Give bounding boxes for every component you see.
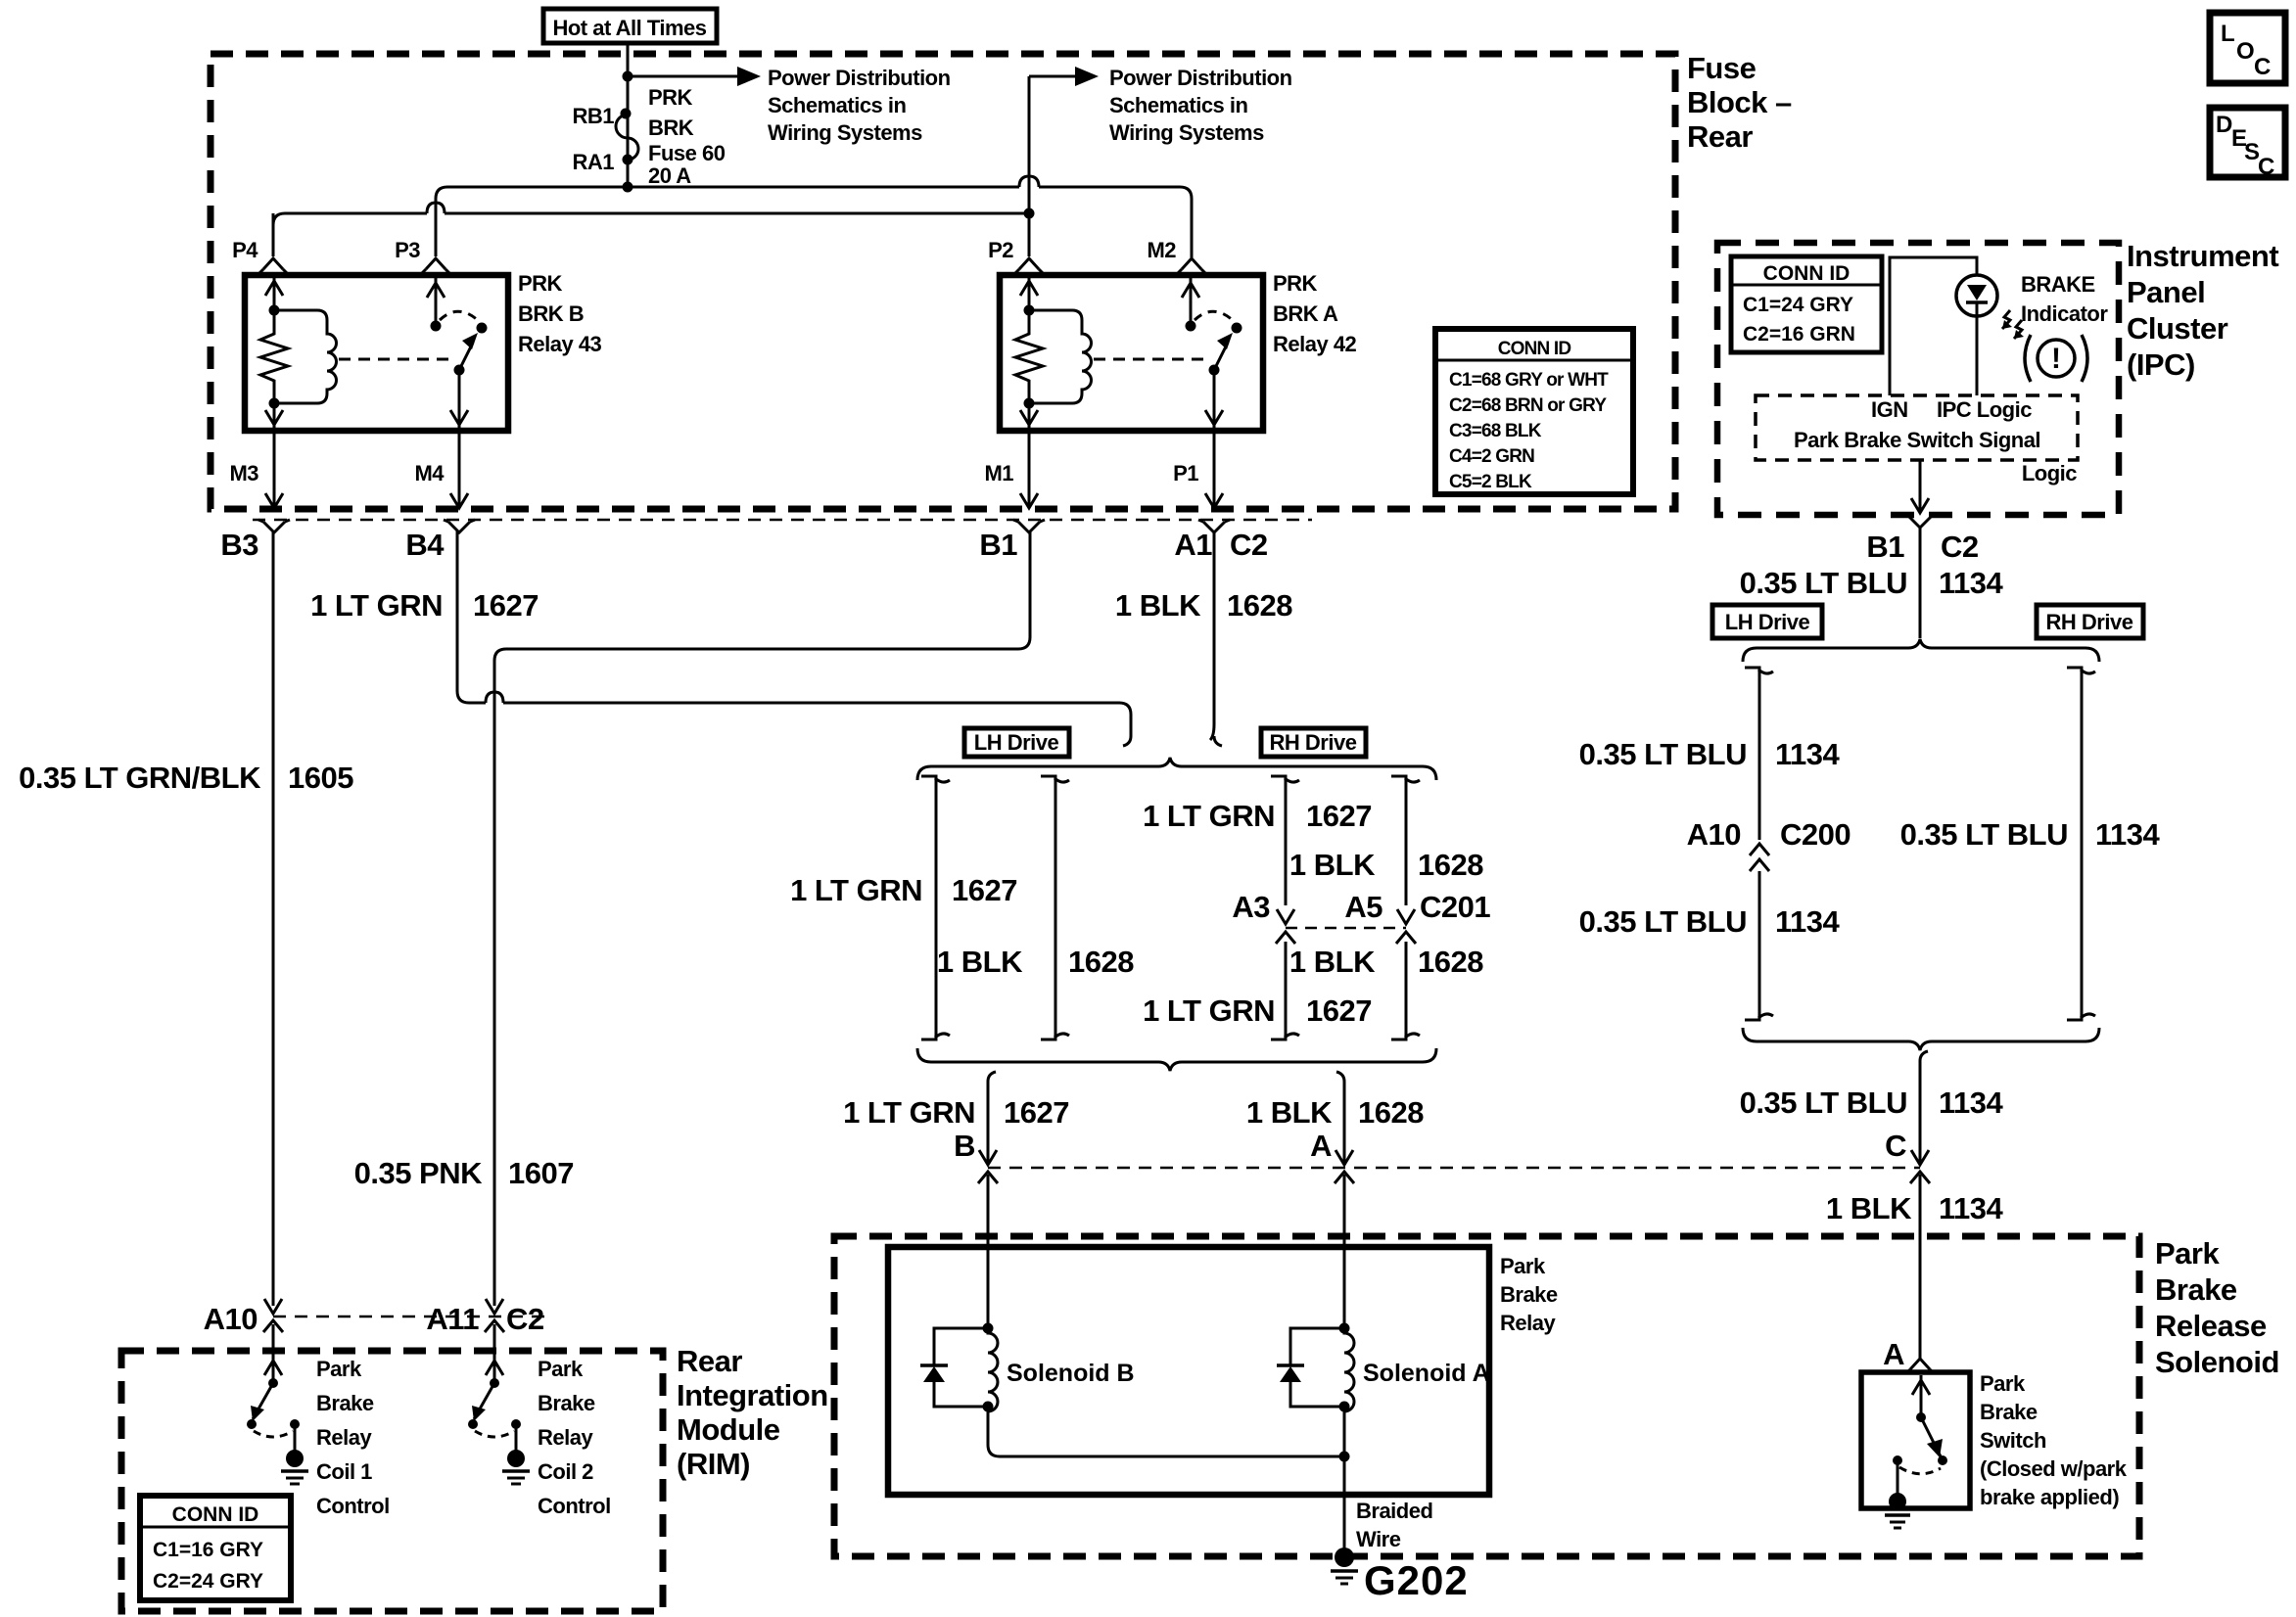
bundle line RH outer <box>1391 776 1406 905</box>
svg-text:C3=68 BLK: C3=68 BLK <box>1449 421 1542 441</box>
svg-text:1628: 1628 <box>1227 588 1292 623</box>
switch blade PRK BRK A Relay 42 <box>1214 343 1228 370</box>
svg-text:P2: P2 <box>988 238 1013 262</box>
node junction at fuse top <box>623 71 633 82</box>
svg-text:B1: B1 <box>1866 530 1904 564</box>
switch travel dashed arc <box>254 1431 293 1437</box>
wire harness to B connector (1 LT GRN 1627) <box>987 1082 990 1165</box>
connector A at park brake switch <box>1910 1359 1930 1369</box>
svg-text:1628: 1628 <box>1068 945 1134 979</box>
connector A <box>1335 1150 1353 1165</box>
wire M1 drop <box>1028 432 1031 508</box>
svg-text:P4: P4 <box>232 238 258 262</box>
svg-text:Brake: Brake <box>316 1391 374 1415</box>
svg-text:P1: P1 <box>1173 461 1198 485</box>
node P2 junction on second bus <box>1024 208 1035 219</box>
thin connector dashed line below fuse block <box>253 519 1312 522</box>
svg-text:Block –: Block – <box>1687 85 1792 119</box>
svg-text:(Closed w/park: (Closed w/park <box>1980 1456 2128 1481</box>
right harness bottom brace <box>1743 1028 2099 1050</box>
svg-text:C2=16 GRN: C2=16 GRN <box>1743 323 1855 346</box>
IPC logic dashed box <box>1756 395 2078 460</box>
wire C connector to park brake switch <box>1919 1175 1922 1359</box>
svg-text:C2=24 GRY: C2=24 GRY <box>153 1570 263 1593</box>
node coil bottom junction <box>269 398 280 409</box>
harness top brace <box>917 758 1436 780</box>
PRK BRK A Relay 42 switch output arrow <box>1213 370 1216 428</box>
node Solenoid B top junction <box>983 1323 994 1334</box>
svg-text:BRK B: BRK B <box>518 301 584 326</box>
svg-text:PRK: PRK <box>518 271 563 296</box>
hook into harness brace (green) <box>1123 736 1131 746</box>
connector B3 <box>265 493 283 508</box>
ground symbol <box>502 1469 530 1473</box>
wire M4 drop <box>458 431 461 508</box>
svg-text:brake applied): brake applied) <box>1980 1485 2119 1509</box>
instrument panel cluster dashed box <box>1717 243 2119 515</box>
svg-text:Release: Release <box>2155 1309 2267 1343</box>
node Solenoid A top junction <box>1339 1323 1350 1334</box>
wire into coil control switch Coil 2 <box>493 1324 496 1380</box>
svg-text:!: ! <box>2051 343 2061 375</box>
svg-text:A: A <box>1310 1129 1332 1163</box>
ground symbol <box>281 1469 308 1473</box>
svg-text:Park: Park <box>1500 1254 1546 1278</box>
svg-text:PRK: PRK <box>1273 271 1318 296</box>
brake indicator LED <box>1956 275 1997 316</box>
connector A10 <box>264 1299 282 1314</box>
ground node <box>286 1450 304 1467</box>
svg-text:D: D <box>2216 112 2232 138</box>
svg-text:1134: 1134 <box>1939 1086 2004 1120</box>
svg-text:Indicator: Indicator <box>2021 301 2108 326</box>
svg-text:1 LT GRN: 1 LT GRN <box>790 873 922 907</box>
IPC CONN ID table <box>1731 256 1882 352</box>
node switch pivot <box>1209 365 1220 376</box>
wire to ground <box>294 1424 297 1455</box>
RH Drive box (center) <box>1261 728 1366 757</box>
wire solenoid A to ground (braided wire) <box>1343 1407 1346 1557</box>
svg-text:1628: 1628 <box>1418 848 1483 882</box>
PRK BRK B Relay 43 switch output arrow <box>458 370 461 428</box>
svg-text:Hot at All Times: Hot at All Times <box>552 16 706 40</box>
svg-text:Fuse 60: Fuse 60 <box>648 141 726 165</box>
wire P4 drop <box>272 213 275 256</box>
park brake switch input arrow <box>1920 1375 1923 1417</box>
bundle line RH inner <box>1271 776 1286 905</box>
svg-text:Coil 1: Coil 1 <box>316 1459 372 1484</box>
PRK BRK B Relay 43 switch input wire <box>435 278 438 326</box>
svg-text:1628: 1628 <box>1418 945 1483 979</box>
svg-text:C2: C2 <box>506 1302 544 1336</box>
wire arrow to power distribution (left) <box>628 75 737 78</box>
coil Solenoid B <box>988 1328 998 1411</box>
hop of pink wire over green wire <box>486 692 503 703</box>
wire from Hot at All Times to fuse <box>627 43 630 187</box>
node switch pivot <box>490 1378 499 1388</box>
svg-text:Fuse: Fuse <box>1687 51 1757 85</box>
ground G202 <box>1335 1548 1354 1567</box>
svg-text:A5: A5 <box>1344 890 1382 924</box>
connector C201 dashed line <box>1286 927 1406 930</box>
svg-text:1 BLK: 1 BLK <box>1115 588 1201 623</box>
wire B4 down and right to LH/RH drive bundle (1 LT GRN 1627) <box>457 531 1131 736</box>
svg-text:Control: Control <box>538 1494 611 1518</box>
middle CONN ID table <box>1435 329 1633 494</box>
svg-text:CONN ID: CONN ID <box>1498 339 1571 359</box>
solenoid assembly box <box>888 1247 1489 1495</box>
svg-text:B4: B4 <box>405 528 445 562</box>
node switch ground contact <box>1893 1455 1902 1465</box>
svg-text:1627: 1627 <box>952 873 1017 907</box>
LH Drive box (right) <box>1712 605 1822 638</box>
svg-text:G202: G202 <box>1364 1557 1469 1603</box>
connector A5 at C201 <box>1397 909 1415 924</box>
IPC internal feed wire <box>1890 257 1977 395</box>
node switch NO contact <box>477 323 488 334</box>
rear integration module dashed box <box>121 1351 663 1611</box>
bundle line LH inner <box>1041 776 1055 1039</box>
svg-text:RB1: RB1 <box>572 104 614 128</box>
svg-text:0.35 LT BLU: 0.35 LT BLU <box>1740 1086 1907 1120</box>
right bundle line LH <box>1745 668 1759 840</box>
svg-text:Brake: Brake <box>538 1391 595 1415</box>
svg-text:Integration: Integration <box>677 1378 828 1412</box>
svg-text:B3: B3 <box>220 528 258 562</box>
svg-text:1627: 1627 <box>1306 799 1372 833</box>
switch movement dashed arc <box>440 311 481 323</box>
svg-text:Brake: Brake <box>1500 1282 1558 1307</box>
svg-text:Schematics in: Schematics in <box>768 93 907 117</box>
svg-text:Logic: Logic <box>2022 461 2077 485</box>
node switch blade end <box>1938 1455 1947 1465</box>
connector B4 <box>450 493 468 508</box>
svg-text:1134: 1134 <box>1775 904 1841 939</box>
svg-text:Cluster: Cluster <box>2127 311 2228 346</box>
node switch fixed contact <box>1186 321 1196 332</box>
switch blade <box>253 1383 273 1419</box>
PRK BRK A Relay 42 coil output arrow <box>1028 403 1031 428</box>
svg-text:Brake: Brake <box>2155 1272 2237 1307</box>
svg-text:Park Brake Switch Signal: Park Brake Switch Signal <box>1794 428 2040 452</box>
resistor PRK BRK B Relay 43 <box>260 310 288 403</box>
switch movement dashed arc <box>1195 311 1236 323</box>
svg-text:M2: M2 <box>1147 238 1176 262</box>
svg-text:1134: 1134 <box>2095 817 2161 852</box>
PRK BRK B Relay 43 coil output arrow <box>273 403 276 428</box>
svg-text:Braided: Braided <box>1356 1499 1432 1523</box>
node switch pivot <box>268 1378 278 1388</box>
diode Solenoid A <box>1290 1328 1344 1407</box>
svg-text:1 LT GRN: 1 LT GRN <box>310 588 443 623</box>
svg-text:A3: A3 <box>1232 890 1270 924</box>
node blade end contact <box>468 1419 478 1429</box>
wire into coil control switch Coil 1 <box>272 1324 275 1380</box>
hop over P2 wire <box>1019 176 1039 187</box>
connector B1 <box>1020 493 1038 508</box>
svg-text:IPC Logic: IPC Logic <box>1937 397 2032 422</box>
svg-text:1 LT GRN: 1 LT GRN <box>1143 993 1275 1028</box>
svg-text:1605: 1605 <box>288 761 353 795</box>
coil PRK BRK A Relay 42 <box>1029 310 1092 403</box>
svg-text:LH Drive: LH Drive <box>974 730 1059 755</box>
svg-text:Panel: Panel <box>2127 275 2205 309</box>
wire contact to ground <box>1897 1460 1899 1501</box>
svg-text:1134: 1134 <box>1939 1191 2004 1225</box>
svg-text:BRAKE: BRAKE <box>2021 272 2095 297</box>
svg-text:1 BLK: 1 BLK <box>1289 945 1376 979</box>
LED emission arrows <box>2002 310 2010 329</box>
RIM CONN ID table <box>140 1496 291 1600</box>
svg-text:Relay: Relay <box>316 1425 372 1450</box>
svg-text:Solenoid: Solenoid <box>2155 1345 2279 1379</box>
connector B1/C2 at IPC <box>1909 517 1931 528</box>
LH Drive box (center) <box>964 728 1069 757</box>
brake warning symbol ((!)) <box>2038 340 2075 377</box>
svg-text:(RIM): (RIM) <box>677 1447 750 1481</box>
park brake relay dashed boundary <box>834 1236 2139 1556</box>
PRK BRK A Relay 42 coil input arrow <box>1028 278 1031 310</box>
svg-text:Solenoid B: Solenoid B <box>1007 1360 1135 1387</box>
PRK BRK B Relay 43 coil input arrow <box>273 278 276 310</box>
top bus wire from P3 to M2 <box>436 187 1192 257</box>
node fuse output junction <box>623 182 633 193</box>
svg-text:C4=2 GRN: C4=2 GRN <box>1449 446 1534 467</box>
svg-text:C2=68 BRN or GRY: C2=68 BRN or GRY <box>1449 395 1607 416</box>
svg-text:Wiring Systems: Wiring Systems <box>1109 120 1264 145</box>
svg-text:Park: Park <box>2155 1236 2220 1270</box>
node Solenoid A bottom junction <box>1339 1402 1350 1412</box>
svg-text:0.35 LT BLU: 0.35 LT BLU <box>1579 904 1747 939</box>
svg-text:1628: 1628 <box>1358 1095 1424 1130</box>
svg-text:Park: Park <box>538 1357 584 1381</box>
svg-text:LH Drive: LH Drive <box>1725 610 1810 634</box>
svg-text:C: C <box>1885 1129 1906 1163</box>
svg-text:C: C <box>2258 154 2274 180</box>
svg-text:1 BLK: 1 BLK <box>1289 848 1376 882</box>
svg-text:1 LT GRN: 1 LT GRN <box>843 1095 975 1130</box>
wire P2 riser to power distribution arrow (right) <box>1028 76 1031 213</box>
relay box PRK BRK A Relay 42 <box>1000 275 1263 431</box>
svg-text:C2: C2 <box>1230 528 1268 562</box>
svg-text:A: A <box>1883 1337 1904 1371</box>
svg-text:A10: A10 <box>1687 817 1741 852</box>
ground symbol at switch <box>1885 1513 1910 1517</box>
resistor PRK BRK A Relay 42 <box>1015 310 1043 403</box>
svg-text:0.35 LT BLU: 0.35 LT BLU <box>1900 817 2068 852</box>
relay mechanical link dashed line <box>1094 358 1206 361</box>
svg-text:C2: C2 <box>1941 530 1979 564</box>
svg-text:A1: A1 <box>1174 528 1212 562</box>
fuse block - rear dashed boundary <box>211 54 1675 509</box>
svg-text:Brake: Brake <box>1980 1400 2038 1424</box>
fuse RB1 terminal <box>621 109 632 119</box>
connector P2 <box>1019 258 1039 269</box>
svg-text:20 A: 20 A <box>648 163 691 188</box>
wire solenoid B to common <box>988 1407 1344 1456</box>
second bus wire from P4 to P2 junction <box>273 213 1029 225</box>
switch travel dashed arc <box>1899 1467 1941 1474</box>
connector P4 <box>263 258 283 269</box>
svg-text:Coil 2: Coil 2 <box>538 1459 593 1484</box>
svg-text:Relay: Relay <box>1500 1311 1556 1335</box>
svg-text:PRK: PRK <box>648 85 693 110</box>
DESC box <box>2210 108 2285 177</box>
svg-text:1627: 1627 <box>1004 1095 1069 1130</box>
svg-text:1 BLK: 1 BLK <box>1826 1191 1912 1225</box>
relay box PRK BRK B Relay 43 <box>245 275 508 431</box>
svg-text:Park: Park <box>1980 1371 2026 1396</box>
bundle line LH outer <box>921 776 936 1039</box>
wire P3 drop <box>435 199 438 256</box>
hook solenoid B feed <box>988 1072 996 1082</box>
svg-text:C1=24 GRY: C1=24 GRY <box>1743 294 1853 316</box>
diode Solenoid B <box>934 1328 988 1407</box>
wire solenoid A feed <box>1343 1175 1346 1328</box>
svg-text:Switch: Switch <box>1980 1428 2046 1453</box>
fuse RA1 terminal <box>623 155 633 165</box>
wire P1 drop <box>1213 432 1216 508</box>
thin dashed connector line at park brake relay <box>988 1167 1920 1170</box>
wire A1/C2 down to harness (1 BLK 1628) <box>1210 531 1214 740</box>
wire to C connector (0.35 LT BLU 1134) <box>1919 1061 1922 1165</box>
svg-text:B1: B1 <box>979 528 1017 562</box>
svg-text:1134: 1134 <box>1775 737 1841 771</box>
Hot at All Times box <box>543 9 717 43</box>
svg-text:Rear: Rear <box>1687 119 1753 154</box>
svg-text:Power Distribution: Power Distribution <box>768 66 951 90</box>
svg-text:Park: Park <box>316 1357 362 1381</box>
svg-text:C: C <box>2254 54 2271 80</box>
ground node at switch <box>1889 1493 1906 1510</box>
connector B <box>979 1150 997 1165</box>
node fixed contact <box>511 1419 521 1429</box>
node coil top junction <box>1024 305 1035 316</box>
harness bottom brace <box>917 1048 1436 1071</box>
ground node <box>507 1450 525 1467</box>
connector A3 at C201 <box>1277 909 1294 924</box>
svg-text:O: O <box>2236 38 2255 65</box>
svg-text:Relay: Relay <box>538 1425 593 1450</box>
connector A11/C2 <box>486 1299 503 1314</box>
right harness top brace <box>1743 639 2099 662</box>
svg-text:BRK: BRK <box>648 115 694 140</box>
svg-text:1 BLK: 1 BLK <box>1246 1095 1333 1130</box>
svg-text:1627: 1627 <box>473 588 539 623</box>
wire solenoid B feed <box>987 1175 990 1328</box>
svg-text:M1: M1 <box>984 461 1013 485</box>
switch blade <box>474 1383 494 1419</box>
thin dashed connector line at RIM <box>273 1316 548 1318</box>
svg-text:L: L <box>2221 21 2235 47</box>
node switch NO contact <box>1232 323 1242 334</box>
svg-text:Relay 42: Relay 42 <box>1273 332 1357 356</box>
svg-text:C1=16 GRY: C1=16 GRY <box>153 1539 263 1561</box>
svg-text:1 LT GRN: 1 LT GRN <box>1143 799 1275 833</box>
svg-text:Instrument: Instrument <box>2127 239 2278 273</box>
svg-text:RA1: RA1 <box>572 150 614 174</box>
connector C200 inline <box>1750 844 1769 855</box>
svg-text:1627: 1627 <box>1306 993 1372 1028</box>
connector A1/C2 <box>1205 493 1223 508</box>
node coil top junction <box>269 305 280 316</box>
svg-text:Solenoid A: Solenoid A <box>1363 1360 1490 1387</box>
wire to ground <box>515 1424 518 1455</box>
PRK BRK A Relay 42 switch input wire <box>1190 278 1193 326</box>
svg-text:RH Drive: RH Drive <box>2046 610 2133 634</box>
switch blade with arrow <box>1921 1417 1941 1456</box>
park brake switch box <box>1861 1372 1970 1508</box>
svg-text:BRK A: BRK A <box>1273 301 1338 326</box>
svg-text:Power Distribution: Power Distribution <box>1109 66 1292 90</box>
svg-text:Control: Control <box>316 1494 390 1518</box>
node fixed contact <box>290 1419 300 1429</box>
wire P2 drop <box>1028 213 1031 256</box>
svg-text:Rear: Rear <box>677 1344 742 1378</box>
svg-text:0.35 LT BLU: 0.35 LT BLU <box>1579 737 1747 771</box>
hop over P3 wire <box>427 203 445 213</box>
svg-text:A10: A10 <box>204 1302 258 1336</box>
coil PRK BRK B Relay 43 <box>274 310 337 403</box>
node switch fixed contact <box>431 321 442 332</box>
svg-text:1607: 1607 <box>508 1156 574 1190</box>
right bundle line RH <box>2067 668 2082 1020</box>
svg-text:0.35 LT BLU: 0.35 LT BLU <box>1740 566 1907 600</box>
svg-text:Wire: Wire <box>1356 1527 1401 1551</box>
svg-text:M3: M3 <box>229 461 258 485</box>
svg-text:P3: P3 <box>395 238 420 262</box>
wire M3 drop <box>273 431 276 508</box>
node coil bottom junction <box>1024 398 1035 409</box>
RH Drive box (right) <box>2037 605 2143 638</box>
connector C <box>1911 1150 1929 1165</box>
wire B1 down-left to A11 (0.35 PNK 1607) <box>494 531 1030 1306</box>
svg-text:Schematics in: Schematics in <box>1109 93 1248 117</box>
svg-text:RH Drive: RH Drive <box>1270 730 1357 755</box>
svg-text:CONN ID: CONN ID <box>1763 262 1851 285</box>
IPC output wire <box>1919 460 1922 513</box>
svg-text:(IPC): (IPC) <box>2127 347 2195 382</box>
fuse 60 element squiggle <box>616 115 638 160</box>
svg-text:C1=68 GRY or WHT: C1=68 GRY or WHT <box>1449 370 1609 391</box>
switch travel dashed arc <box>475 1431 514 1437</box>
svg-text:0.35 PNK: 0.35 PNK <box>354 1156 484 1190</box>
svg-text:1 BLK: 1 BLK <box>937 945 1023 979</box>
node switch pivot <box>454 365 465 376</box>
node Solenoid B bottom junction <box>983 1402 994 1412</box>
relay mechanical link dashed line <box>339 358 451 361</box>
wire B3 to A10 (0.35 LT GRN/BLK 1605) <box>272 531 275 1306</box>
svg-text:B: B <box>954 1129 975 1163</box>
node solenoid common junction <box>1339 1452 1350 1462</box>
svg-text:Module: Module <box>677 1412 780 1447</box>
coil Solenoid A <box>1344 1328 1354 1411</box>
svg-text:C200: C200 <box>1780 817 1851 852</box>
node switch common <box>1916 1412 1926 1422</box>
svg-text:CONN ID: CONN ID <box>172 1503 259 1526</box>
node blade end contact <box>247 1419 257 1429</box>
svg-text:1134: 1134 <box>1939 566 2004 600</box>
svg-text:C5=2 BLK: C5=2 BLK <box>1449 472 1532 492</box>
connector P3 <box>426 258 445 269</box>
hook solenoid A feed <box>1336 1072 1344 1082</box>
svg-text:Wiring Systems: Wiring Systems <box>768 120 922 145</box>
connector M2 <box>1182 258 1201 269</box>
switch blade PRK BRK B Relay 43 <box>459 343 473 370</box>
hook park brake switch feed <box>1920 1051 1928 1061</box>
wire harness to A connector (1 BLK 1628) <box>1343 1082 1346 1165</box>
svg-text:M4: M4 <box>414 461 445 485</box>
